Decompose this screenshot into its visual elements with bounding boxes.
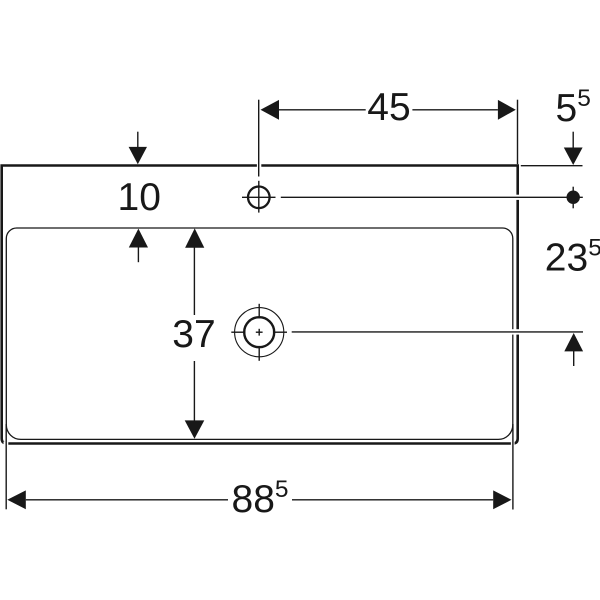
svg-text:55: 55 [556, 85, 591, 130]
svg-text:10: 10 [118, 176, 161, 219]
svg-text:885: 885 [232, 476, 289, 521]
svg-text:235: 235 [545, 235, 600, 280]
svg-text:37: 37 [172, 313, 215, 356]
svg-text:45: 45 [367, 86, 410, 129]
